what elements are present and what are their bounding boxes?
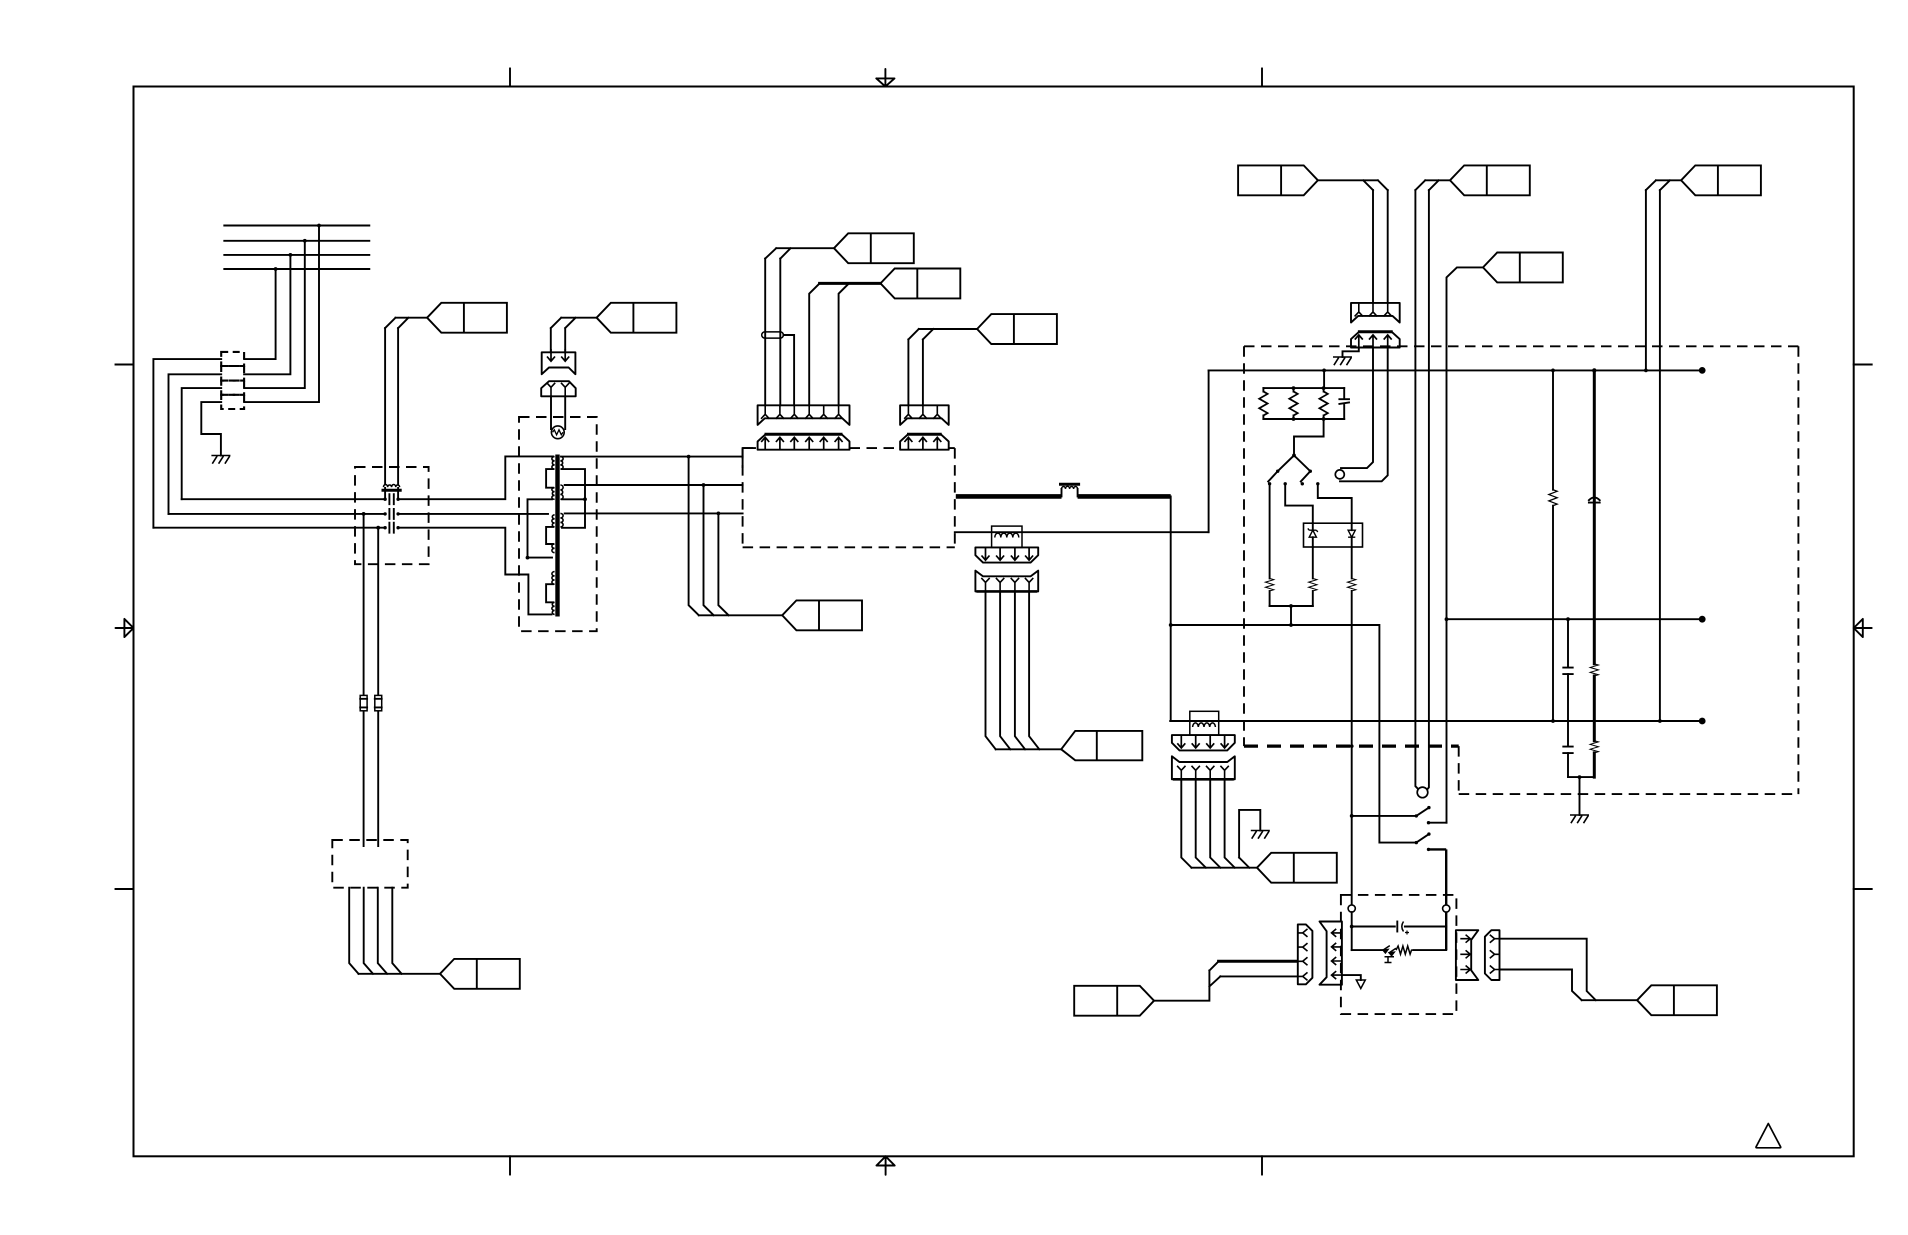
wire P4 pin1 bbox=[986, 592, 996, 749]
flag I bbox=[1257, 853, 1337, 883]
wire left terminal down bbox=[1351, 912, 1353, 950]
wire bus4 to J1 row1 bbox=[244, 269, 276, 359]
wire to C3 bbox=[153, 527, 384, 529]
fuse F1 bbox=[360, 695, 367, 710]
flag M bbox=[1450, 165, 1530, 195]
switch SW2 bbox=[1294, 455, 1320, 485]
node RC c bbox=[1292, 417, 1296, 421]
wire opto right down bbox=[1351, 547, 1353, 578]
wire flag M bundle bbox=[1415, 180, 1450, 190]
transformer T1 core bbox=[555, 455, 559, 617]
node bus2 bbox=[303, 239, 307, 243]
capacitor C5 bbox=[1589, 497, 1600, 502]
wire T1 sec1 bbox=[561, 456, 743, 458]
wire T1 primary bottom bbox=[398, 528, 551, 615]
switch SW1 bbox=[1268, 455, 1294, 485]
flag D bbox=[782, 600, 862, 630]
connector P4 top half bbox=[975, 547, 1038, 562]
optocoupler U1 box bbox=[1304, 523, 1363, 547]
centering mark left bbox=[116, 619, 134, 637]
resistor R2 bbox=[1289, 388, 1297, 419]
resistor R3 bbox=[1319, 388, 1327, 419]
diode D1 up bbox=[1308, 523, 1318, 547]
node line1 right bbox=[1644, 369, 1648, 373]
wire SW1b to opto bbox=[1285, 486, 1313, 524]
line filter box L3 bbox=[1190, 711, 1219, 735]
wire thin secondary bbox=[955, 531, 1209, 533]
flag H bbox=[1061, 731, 1142, 760]
ground G4 bbox=[1570, 815, 1589, 823]
wire opto left down bbox=[1312, 547, 1314, 578]
wire snubber bottom u bbox=[1568, 776, 1594, 778]
connector P1 bottom half bbox=[758, 434, 850, 450]
wire S2 contact down bbox=[1429, 849, 1447, 950]
T1 right winding S3 bbox=[560, 513, 563, 527]
wire P3 pin1 to ground bbox=[1343, 348, 1359, 358]
node cap rail bbox=[1350, 925, 1354, 929]
bus line 1 bbox=[224, 225, 369, 227]
wire J2 pin1 bbox=[349, 888, 358, 974]
node rail low bbox=[1289, 604, 1293, 608]
capacitor C6 bbox=[1563, 668, 1572, 675]
wire C3 to fuse F2 bbox=[377, 528, 379, 846]
node mid rail join bbox=[1289, 623, 1293, 627]
connector P1 top half bbox=[758, 405, 850, 425]
capacitor C4 bbox=[1339, 388, 1349, 419]
bus line 3 bbox=[224, 254, 369, 256]
dashed box main pcb bbox=[743, 448, 955, 547]
wire P2 pin2 bbox=[922, 339, 924, 405]
rail low bbox=[1270, 605, 1313, 607]
wire P1 pin4 bbox=[809, 283, 819, 405]
flag N bbox=[1483, 253, 1563, 283]
flag E bbox=[427, 303, 507, 333]
wire sw feed bbox=[1352, 815, 1417, 817]
capacitor C8 bbox=[1397, 922, 1409, 935]
flag J bbox=[1637, 985, 1717, 1015]
wire flag G bundle bbox=[359, 973, 441, 975]
connector P7 left half bbox=[1298, 924, 1313, 984]
resistor R1 bbox=[1259, 388, 1267, 419]
wire P4 pin3 bbox=[1015, 592, 1025, 749]
ground G1 bbox=[211, 456, 230, 464]
wire P6 to RT1 bbox=[551, 396, 565, 429]
ferrite bead FB2 bbox=[383, 328, 400, 497]
wire J2 pin2 bbox=[364, 888, 373, 974]
dashed box driver unit bbox=[1341, 895, 1457, 1014]
border tick left lower bbox=[116, 888, 134, 890]
dashed thick segment psu bottom-left bbox=[1244, 744, 1459, 747]
terminal dot line1 bbox=[1699, 367, 1706, 374]
node T1 sec2 bbox=[702, 483, 706, 487]
T1 right winding S1 bbox=[560, 457, 563, 470]
wire P8 pin3 out bbox=[1500, 970, 1582, 1001]
node psu dash crossing bbox=[1350, 744, 1354, 748]
flag G bbox=[440, 959, 520, 989]
node snubber ground bbox=[1578, 775, 1582, 779]
connector P2 bottom half bbox=[900, 434, 949, 450]
wire flag E bundle bbox=[385, 318, 427, 328]
connector P6 top half bbox=[542, 349, 576, 374]
wire T1 left tap jog bbox=[528, 499, 553, 557]
node line3 right bbox=[1658, 719, 1662, 723]
wire P1 pin2 bbox=[779, 259, 781, 406]
dashed box transformer unit bbox=[519, 417, 597, 631]
node RC b bbox=[1322, 386, 1326, 390]
border tick top-right quarter bbox=[1261, 69, 1263, 87]
terminal left circle bbox=[1348, 905, 1355, 912]
border tick bottom-right quarter bbox=[1261, 1156, 1263, 1174]
connector P3 bottom half bbox=[1351, 332, 1400, 348]
wire relay coil left bbox=[1415, 190, 1418, 789]
node RC tap bbox=[1322, 369, 1326, 373]
diode D2 down bbox=[1348, 523, 1355, 547]
connector P6 bottom half bbox=[541, 381, 576, 396]
border tick top-left quarter bbox=[509, 69, 511, 87]
relay coil terminal bbox=[1417, 787, 1428, 798]
connector P5 top half bbox=[1172, 735, 1235, 750]
wire P5 pin3 bbox=[1210, 779, 1220, 867]
capacitor C3 bbox=[383, 523, 399, 533]
centering mark top bbox=[876, 69, 894, 87]
centering mark bottom bbox=[877, 1156, 895, 1175]
node sw feed bbox=[1350, 814, 1354, 818]
output line3 bbox=[1170, 720, 1702, 722]
wire harness thick P7 bbox=[1219, 960, 1297, 963]
wire P5 pin2 bbox=[1196, 779, 1206, 867]
wire flag H bundle bbox=[996, 748, 1061, 750]
flag O bbox=[1681, 165, 1761, 195]
connector P8 right half bbox=[1485, 930, 1500, 980]
snubber resistor branch bbox=[1552, 370, 1554, 489]
wire flag O to line1 bbox=[1645, 190, 1647, 370]
capacitor C2 bbox=[383, 509, 399, 519]
wire P3 pin3 top bbox=[1387, 190, 1389, 303]
node T1 sec1 bbox=[687, 455, 691, 459]
resistor R8 bbox=[1590, 664, 1598, 676]
wire bus3 to J1 row2 bbox=[244, 255, 290, 374]
node T1 bracket tap bbox=[583, 497, 587, 501]
wire C2 to fuse F1 bbox=[363, 514, 365, 846]
bus line 4 bbox=[224, 268, 369, 270]
wire flag C bundle bbox=[908, 329, 977, 339]
connector P7 right half bbox=[1320, 922, 1342, 985]
terminal dot line2 bbox=[1699, 616, 1706, 623]
bus line 2 bbox=[224, 240, 369, 242]
wire SW1a down bbox=[1269, 486, 1271, 579]
wire P8 pin1 out bbox=[1500, 939, 1596, 1001]
connector P2 top half bbox=[900, 405, 949, 425]
wire J2 pin4 bbox=[392, 888, 401, 974]
node RC d bbox=[1322, 417, 1326, 421]
node filter cap top bbox=[1566, 617, 1570, 621]
wire to ground G4 bbox=[1579, 777, 1581, 815]
ground G3 bbox=[1251, 831, 1270, 839]
wire rail low drop bbox=[1290, 606, 1292, 625]
resistor R6 bbox=[1348, 578, 1356, 905]
wire relay coil right bbox=[1427, 190, 1429, 790]
flag A bbox=[834, 233, 914, 263]
relay switch S2 bbox=[1415, 832, 1431, 851]
cap rail wire bbox=[1352, 926, 1447, 928]
wire sec3 to flag D bbox=[718, 513, 728, 615]
T1 left winding S4 bbox=[552, 544, 555, 553]
wire T1 sec3 bbox=[565, 512, 743, 514]
flag C bbox=[977, 314, 1057, 344]
filter cap branch bbox=[1567, 619, 1569, 777]
connector P8 left half bbox=[1456, 930, 1478, 980]
wire RC tap bbox=[1323, 370, 1325, 388]
wire sec2 to flag D bbox=[704, 485, 714, 615]
capacitor C1 bbox=[383, 494, 399, 504]
node T1 left jog bbox=[526, 556, 530, 560]
wire flag F bundle bbox=[551, 318, 597, 353]
wire S1 to line2 bbox=[1429, 822, 1447, 824]
line filter box L2 bbox=[992, 526, 1022, 547]
wire to C1 bbox=[182, 498, 385, 500]
wire bus corner drop bbox=[1170, 496, 1172, 721]
wire ground jog G3 bbox=[1239, 810, 1260, 868]
transistor Q1 bbox=[1383, 946, 1396, 963]
node mid rail bbox=[1169, 623, 1173, 627]
T1 left winding S6 bbox=[552, 602, 555, 614]
T1 left series bracket 1 bbox=[546, 469, 553, 488]
wire T1 primary top bbox=[398, 456, 553, 499]
border tick left upper bbox=[116, 364, 134, 366]
node snubber r top bbox=[1551, 369, 1555, 373]
resistor R7 bbox=[1549, 490, 1557, 721]
border tick bottom-left quarter bbox=[509, 1156, 511, 1174]
wire flag N bbox=[1447, 267, 1484, 822]
node T1 sec3 bbox=[717, 512, 721, 516]
connector P4 bottom half bbox=[975, 571, 1038, 592]
node line2 left bbox=[1445, 617, 1449, 621]
signal ground triangle bbox=[1356, 980, 1365, 989]
T1 left series bracket 3 bbox=[546, 584, 553, 602]
terminal right circle bbox=[1443, 905, 1450, 912]
wire P1 pin6 bbox=[839, 283, 849, 405]
dashed box J2 bbox=[332, 840, 407, 888]
wire flag J bundle bbox=[1582, 999, 1637, 1001]
wire flag B bundle thick bbox=[820, 282, 881, 285]
flag B bbox=[881, 269, 961, 299]
dashed box psu outline bbox=[1244, 346, 1798, 794]
T1 left winding S1 bbox=[552, 457, 555, 470]
wire RC to switch common bbox=[1294, 419, 1324, 455]
terminal J5 bbox=[1335, 470, 1344, 479]
wire to C2 bbox=[169, 513, 385, 515]
mid rail wire bbox=[1171, 625, 1417, 843]
connector J1 cell 4 bbox=[221, 395, 244, 409]
wire T1 sec2 bbox=[565, 484, 743, 486]
border tick right lower bbox=[1854, 888, 1872, 890]
RC network rails bbox=[1263, 388, 1344, 419]
border tick right upper bbox=[1854, 364, 1872, 366]
wire J1 row3 left bbox=[182, 388, 222, 499]
T1 left series bracket 2 bbox=[546, 527, 553, 544]
dashed box filter caps bbox=[355, 467, 429, 564]
node bus1 bbox=[317, 224, 321, 228]
node C3 tap bbox=[376, 526, 380, 530]
wire P7 pin4 to sgnd bbox=[1342, 975, 1361, 980]
node snubber r bottom bbox=[1551, 719, 1555, 723]
node snubber c top bbox=[1592, 368, 1596, 372]
node switch common bbox=[1292, 454, 1296, 458]
wire J1 row4 to ground bbox=[201, 402, 221, 455]
centering mark right bbox=[1854, 619, 1872, 637]
flag L bbox=[1074, 986, 1154, 1016]
bus thick secondary bbox=[956, 494, 1171, 499]
wire flag I bundle bbox=[1192, 867, 1258, 869]
resistor R5 bbox=[1309, 578, 1317, 606]
wire flag K bundle bbox=[1318, 180, 1388, 190]
wire P3 pin3 to J5 bbox=[1340, 348, 1388, 482]
revision triangle bottom-right bbox=[1756, 1124, 1781, 1148]
ground G2 bbox=[1333, 357, 1352, 365]
node C2 tap bbox=[362, 512, 366, 516]
terminal dot line3 bbox=[1699, 718, 1706, 725]
resistor R9 bbox=[1590, 741, 1598, 753]
output line2 bbox=[1447, 618, 1703, 620]
cable shield capsule bbox=[762, 332, 784, 338]
wire J1 row1 left bbox=[153, 359, 221, 528]
wire sec1 to flag D bbox=[689, 457, 699, 616]
relay switch S1 bbox=[1415, 806, 1431, 825]
thermistor RT1 bbox=[551, 426, 564, 439]
flag F bbox=[597, 303, 677, 333]
wire P5 pin1 bbox=[1181, 779, 1191, 867]
node bus3 bbox=[289, 253, 293, 257]
connector P5 bottom half bbox=[1172, 756, 1235, 779]
T1 right step bracket bbox=[562, 469, 585, 528]
connector P3 top half bbox=[1351, 303, 1400, 323]
wire flag A bundle bbox=[765, 248, 834, 258]
wire bus2 to J1 row3 bbox=[244, 241, 305, 388]
dashed box main pcb corner bbox=[743, 448, 755, 467]
T1 left winding S2 bbox=[552, 488, 555, 500]
wire line1 drop bbox=[1208, 370, 1210, 532]
wire shield drain to P1 pin3 bbox=[783, 335, 794, 405]
wire P4 pin4 bbox=[1029, 592, 1039, 749]
output line1 bbox=[1209, 369, 1703, 371]
T1 left winding S5 bbox=[552, 572, 555, 585]
wire T1 primary mid bbox=[398, 513, 548, 515]
wire P5 pin4 bbox=[1225, 779, 1235, 867]
connector J1 cell 1 bbox=[221, 352, 244, 366]
wire J2 pin3 bbox=[378, 888, 387, 974]
wire harness thin P7 bbox=[1220, 975, 1296, 977]
wire P3 pin2 top bbox=[1372, 190, 1374, 303]
wire P1 pin1 bbox=[764, 259, 766, 406]
wire J1 row2 left bbox=[169, 374, 222, 514]
wire flag O bundle bbox=[1646, 180, 1681, 190]
connector J1 cell 2 bbox=[221, 366, 244, 381]
wire SW2b to opto bbox=[1318, 486, 1352, 524]
T1 left winding S3 bbox=[552, 515, 555, 527]
wire P3 pin2 to J5 bbox=[1341, 348, 1373, 469]
node bus4 bbox=[274, 267, 278, 271]
wire flag L riser bbox=[1154, 961, 1220, 1000]
emitter rail wire bbox=[1352, 949, 1447, 951]
ferrite bead FB1 bbox=[1061, 484, 1079, 496]
node RC a bbox=[1292, 386, 1296, 390]
wire flag D bundle bbox=[699, 614, 782, 616]
fuse F2 bbox=[375, 695, 382, 710]
wire P4 pin2 bbox=[1000, 592, 1010, 749]
connector J1 cell 3 bbox=[221, 381, 244, 395]
flag K bbox=[1238, 165, 1318, 195]
T1 right winding S2 bbox=[560, 485, 563, 499]
page border frame bbox=[134, 87, 1854, 1157]
wire P2 pin1 bbox=[907, 339, 909, 405]
resistor R10 bbox=[1396, 946, 1414, 954]
wire flag O to line3 bbox=[1659, 190, 1661, 721]
capacitor C7 bbox=[1563, 747, 1572, 754]
snubber cap branch thick bbox=[1593, 370, 1596, 777]
wire bus1 to J1 row4 bbox=[244, 226, 319, 403]
resistor R4 bbox=[1265, 578, 1273, 606]
